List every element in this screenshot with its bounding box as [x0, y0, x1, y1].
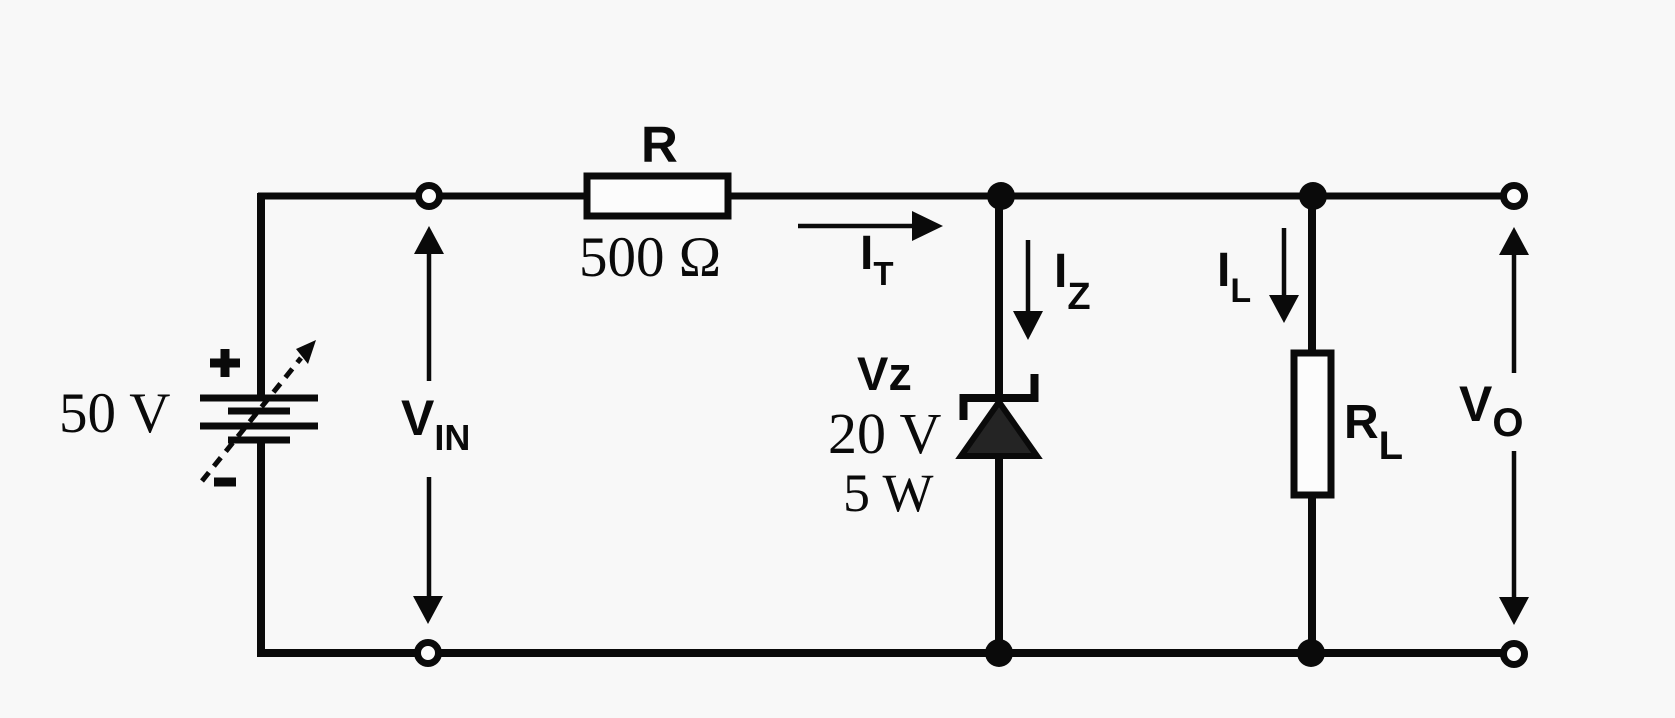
- IZ current arrow: [1013, 240, 1043, 340]
- battery B1 short plate 4: [228, 437, 290, 444]
- battery plus sign: [210, 349, 240, 377]
- battery B1 long plate 1: [200, 395, 318, 402]
- terminal top-left open circle: [419, 186, 440, 207]
- resistor RL body: [1294, 353, 1331, 495]
- svg-text:5 W: 5 W: [843, 463, 934, 523]
- junction node bottom zener: [985, 639, 1013, 667]
- junction node bottom load: [1297, 639, 1325, 667]
- svg-text:RL: RL: [1344, 396, 1403, 468]
- wire bottom rail: [258, 649, 1514, 657]
- wire zener branch upper: [995, 196, 1003, 399]
- VO measurement arrow: [1499, 227, 1529, 625]
- svg-text:500 Ω: 500 Ω: [579, 226, 721, 289]
- svg-text:VIN: VIN: [401, 390, 470, 458]
- wire load branch lower: [1308, 496, 1316, 653]
- wire load branch upper: [1308, 196, 1316, 352]
- zener diode D1 cathode bar: [964, 374, 1035, 420]
- junction node top load: [1299, 182, 1327, 210]
- terminal top-right open circle: [1504, 186, 1525, 207]
- VIN measurement arrow: [413, 226, 444, 624]
- svg-text:R: R: [641, 116, 678, 173]
- zener diode D1 triangle: [961, 402, 1037, 456]
- IT current arrow: [798, 211, 943, 241]
- wire top rail: [258, 193, 1514, 200]
- wire left vertical upper (source top lead): [257, 193, 265, 398]
- svg-text:VO: VO: [1459, 376, 1523, 445]
- battery B1 long plate 3: [200, 423, 318, 430]
- battery B1 short plate 2: [228, 408, 290, 415]
- wire left vertical lower (source bottom lead): [257, 440, 265, 657]
- wire zener branch lower: [995, 453, 1003, 653]
- svg-text:50 V: 50 V: [59, 382, 170, 445]
- junction node top zener: [987, 182, 1015, 210]
- svg-text:Vz: Vz: [857, 347, 912, 400]
- IL current arrow: [1269, 228, 1299, 323]
- resistor R body: [587, 176, 728, 216]
- svg-text:IZ: IZ: [1054, 245, 1091, 318]
- svg-text:IL: IL: [1217, 244, 1251, 310]
- terminal bottom-left open circle: [418, 643, 439, 664]
- battery minus sign: [214, 478, 236, 487]
- terminal bottom-right open circle: [1504, 644, 1525, 665]
- battery variability dashed arrow: [202, 340, 316, 481]
- svg-text:20 V: 20 V: [828, 401, 941, 466]
- svg-text:IT: IT: [860, 227, 894, 292]
